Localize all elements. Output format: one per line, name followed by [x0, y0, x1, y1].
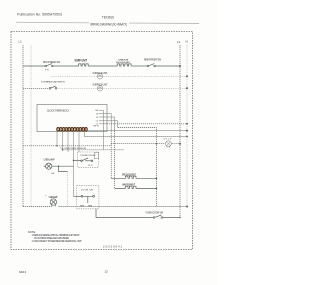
- oven control box U1: [37, 105, 107, 132]
- node lock box feed junction: [73, 160, 75, 162]
- lock switch contacts: [81, 158, 94, 167]
- switch S4 oven door: [145, 212, 164, 218]
- wire row y143 dashed right: [111, 144, 180, 146]
- svg-text:2. DISCONNECT POWER BEFORE SER: 2. DISCONNECT POWER BEFORE SERVICING UNI…: [32, 241, 83, 243]
- wire terminal drop 6 elbow: [84, 131, 86, 136]
- pin wire E long: [99, 123, 107, 125]
- oven lamp DS2 assembly: [44, 159, 55, 170]
- wire row1 to switch2: [132, 65, 147, 67]
- svg-text:CLOCK TIMER (EOC): CLOCK TIMER (EOC): [47, 109, 69, 113]
- resistor element right rear surface unit: [116, 59, 132, 66]
- node drop2 junction: [62, 149, 64, 151]
- pin wire D elbow: [99, 121, 118, 128]
- surface unit SU1 circle: [93, 72, 109, 79]
- wire bottom switch to L1: [163, 217, 180, 219]
- svg-text:L1: L1: [177, 40, 181, 44]
- resistor surface element 1: [78, 64, 89, 66]
- wire row y136 dashed to N: [85, 136, 188, 138]
- svg-text:TEF361S: TEF361S: [102, 16, 115, 20]
- switch S1 right rear surface: [43, 61, 61, 72]
- svg-text:5: 5: [69, 129, 70, 131]
- wire row1 mid: [89, 65, 117, 67]
- svg-text:N: N: [186, 40, 188, 44]
- pin wire C down: [99, 117, 115, 131]
- wire lamp left stub: [44, 165, 46, 167]
- wire row y149 sensor: [63, 149, 125, 151]
- node lamp junction: [58, 165, 60, 167]
- switch S3 left surface: [41, 80, 65, 89]
- N left bus wire: [30, 45, 32, 207]
- node broil x156 junction: [156, 178, 158, 180]
- node row y136 N junction: [186, 136, 188, 138]
- wire bottom row dashed: [23, 206, 187, 208]
- svg-text:Publication No. 5995A70503: Publication No. 5995A70503: [17, 13, 62, 17]
- pin wire C dashed continuation: [114, 131, 116, 188]
- svg-text:7: 7: [74, 129, 75, 131]
- wire into lock box: [74, 159, 81, 161]
- door switch contacts T: [80, 195, 95, 205]
- svg-text:11: 11: [85, 129, 87, 131]
- wire junction drop: [59, 166, 68, 171]
- svg-text:12: 12: [105, 270, 109, 274]
- node N strip junction: [186, 130, 188, 132]
- wire row2 dashed mid: [57, 87, 98, 89]
- oven lamp DS1: [164, 138, 173, 147]
- svg-text:* OVEN DOOR SW: * OVEN DOOR SW: [145, 212, 164, 214]
- wire row y145 dashed left: [23, 145, 111, 147]
- oven lamp DS3: [45, 194, 58, 206]
- wire door switch drop: [95, 209, 97, 218]
- svg-text:1: 1: [57, 129, 58, 131]
- svg-text:DOOR SW: DOOR SW: [81, 189, 94, 191]
- wire bottom switch row: [96, 217, 153, 219]
- node row1b N junction: [186, 75, 188, 77]
- wire into door switch box: [74, 195, 82, 197]
- svg-text:2N200041: 2N200041: [103, 244, 123, 248]
- svg-text:OVEN LAMP: OVEN LAMP: [44, 159, 55, 162]
- svg-text:1. REPLACE WIRING WITH ALL TER: 1. REPLACE WIRING WITH ALL TERMINALS AT …: [32, 234, 81, 237]
- svg-text:NOTE:: NOTE:: [28, 230, 36, 234]
- wire row2 light right: [103, 87, 187, 89]
- surface unit SU2 circle: [93, 84, 109, 91]
- wire terminal drop 5: [78, 131, 80, 152]
- wire terminal drop 3: [67, 131, 69, 152]
- svg-text:WIRING DIAGRAM (SC-49AA7X): WIRING DIAGRAM (SC-49AA7X): [90, 22, 127, 26]
- diagram dashed border: [11, 32, 193, 250]
- pin wire B dashed continuation: [110, 131, 112, 178]
- wire terminal drop 4: [73, 131, 75, 196]
- wire row1b dashed: [51, 75, 187, 77]
- switch S2 right front surface: [144, 59, 162, 67]
- N right bus wire: [186, 45, 188, 207]
- wire terminal drop 2: [62, 131, 64, 150]
- lock box inner rect: [94, 152, 98, 158]
- node bottom row N junction: [186, 206, 188, 208]
- pin wire E dashed run: [107, 123, 187, 125]
- svg-text:6: 6: [71, 129, 72, 131]
- svg-text:3: 3: [63, 129, 64, 131]
- wire row1 to element1: [53, 65, 78, 67]
- svg-text:TO SURFACE UNIT SWITCH: TO SURFACE UNIT SWITCH: [41, 80, 65, 83]
- wire x67 vertical light: [67, 172, 69, 207]
- svg-text:8 INCH 2100 WATT: 8 INCH 2100 WATT: [116, 61, 131, 64]
- header rule line: [16, 22, 199, 23]
- door light switch box dashed: [77, 186, 99, 209]
- svg-text:BK W: BK W: [94, 125, 99, 127]
- node row1 L1 junction: [179, 65, 181, 67]
- wire lamp right to junction: [52, 165, 74, 167]
- wire row2 dashed left: [23, 87, 49, 89]
- node row y143 x156 junction: [156, 143, 158, 145]
- svg-text:10: 10: [82, 129, 84, 131]
- svg-text:SURFACE UNIT: SURFACE UNIT: [93, 72, 109, 75]
- node bake x156 junction: [156, 188, 158, 190]
- node drop1 junction: [56, 145, 58, 147]
- svg-text:SURFACE UNIT: SURFACE UNIT: [93, 84, 109, 87]
- svg-text:9: 9: [80, 129, 81, 131]
- door lock switch box dashed: [78, 152, 99, 167]
- svg-text:SURF UNIT: SURF UNIT: [75, 59, 88, 63]
- svg-text:8: 8: [77, 129, 78, 131]
- pin wire D dashed run: [118, 128, 157, 207]
- wire row1 L1 to switch: [23, 65, 45, 67]
- svg-text:RIGHT FRONT SW: RIGHT FRONT SW: [144, 59, 162, 62]
- svg-text:DOOR LOCK SW: DOOR LOCK SW: [81, 155, 97, 157]
- pin wire A down: [99, 110, 103, 150]
- svg-text:N.O.: N.O.: [89, 165, 94, 167]
- svg-text:9404: 9404: [19, 270, 26, 274]
- svg-text:L1: L1: [19, 40, 23, 44]
- resistor bake element: [115, 186, 157, 188]
- node row y143 L1 junction: [179, 143, 181, 145]
- wire terminal drop 1: [56, 131, 58, 146]
- wire row1 to L1 bus: [155, 65, 180, 67]
- L1 left bus wire: [22, 45, 24, 207]
- pin wire B down: [99, 114, 111, 132]
- svg-text:P H: P H: [45, 70, 49, 72]
- node bottom L1 junction: [179, 217, 180, 218]
- svg-text:TO OVEN TEMP SENSOR: TO OVEN TEMP SENSOR: [60, 148, 86, 150]
- node pin E N junction: [186, 123, 188, 125]
- node row2 N junction: [186, 87, 188, 89]
- L1 right bus wire: [179, 45, 181, 218]
- svg-text:OF CONTROL PANEL AND GROUNDED: OF CONTROL PANEL AND GROUNDED: [34, 237, 69, 240]
- wire strip out to N: [88, 130, 188, 132]
- resistor broil element: [111, 176, 156, 178]
- terminal strip TB1: [57, 128, 88, 132]
- svg-text:2: 2: [60, 129, 61, 131]
- wiring title text: [89, 21, 129, 26]
- svg-text:OV LP: OV LP: [164, 138, 173, 140]
